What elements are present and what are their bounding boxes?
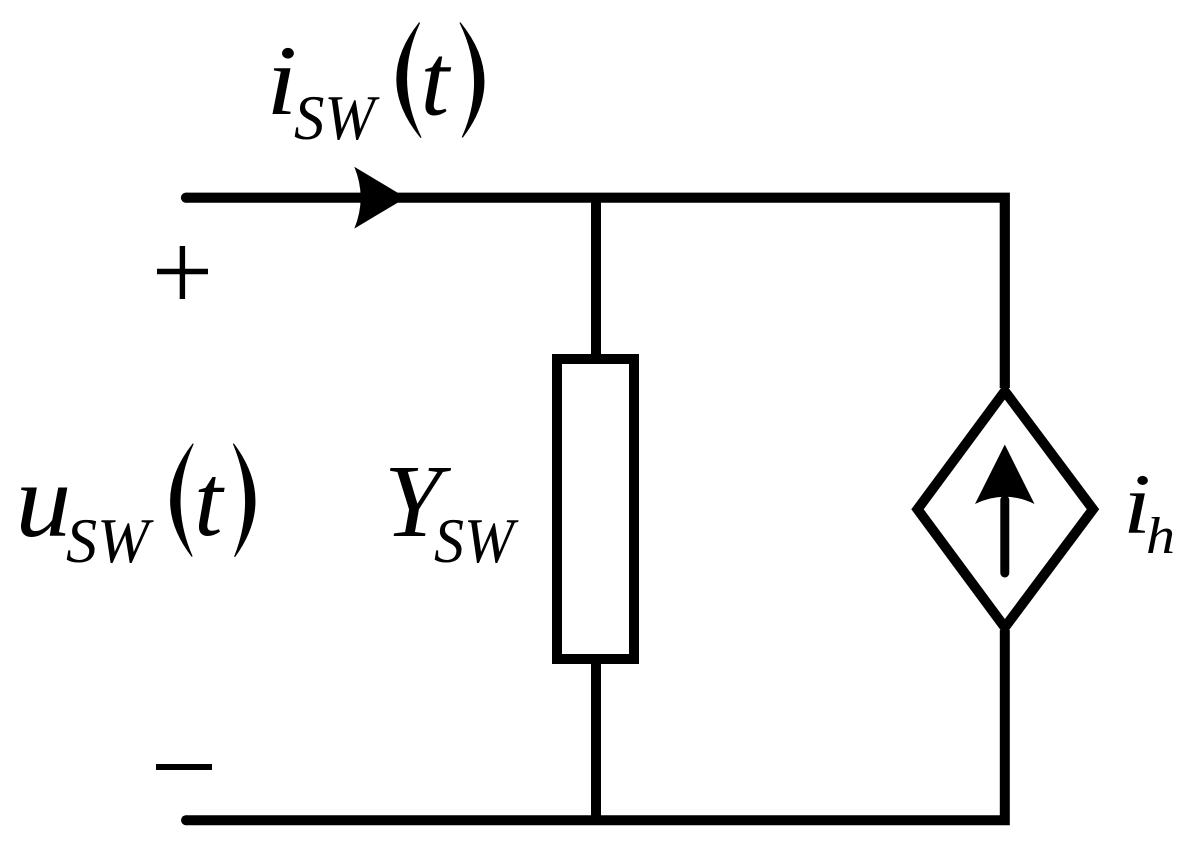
label Y_SW bbox=[384, 444, 519, 576]
current source arrow shaft bbox=[1000, 500, 1009, 573]
label u_SW(t) bbox=[15, 442, 255, 576]
svg-text:SW: SW bbox=[294, 82, 380, 153]
svg-text:h: h bbox=[1146, 508, 1175, 565]
svg-text:t: t bbox=[194, 444, 225, 558]
wire bottom horizontal from left terminal to bottom-right corner, up to current source bbox=[181, 630, 1005, 825]
svg-text:u: u bbox=[15, 442, 71, 559]
wire middle branch from top wire down to admittance box bbox=[591, 198, 601, 356]
svg-text:SW: SW bbox=[434, 505, 519, 576]
current source arrow head bbox=[975, 445, 1035, 505]
svg-text:t: t bbox=[421, 24, 452, 138]
minus terminal sign bbox=[156, 764, 212, 770]
wire top horizontal from left terminal to top-right corner, down to current source bbox=[181, 193, 1005, 388]
wire from admittance box down to bottom wire bbox=[591, 662, 601, 820]
dependent current source U1 diamond bbox=[918, 391, 1094, 627]
label i_h bbox=[1123, 456, 1175, 565]
svg-text:i: i bbox=[266, 25, 297, 136]
svg-text:SW: SW bbox=[66, 505, 155, 576]
admittance Y_SW rectangle body bbox=[557, 359, 634, 659]
arrowhead for current i_SW direction on top wire bbox=[354, 167, 406, 229]
plus terminal sign bbox=[157, 246, 208, 299]
label i_SW(t) bbox=[266, 23, 484, 153]
